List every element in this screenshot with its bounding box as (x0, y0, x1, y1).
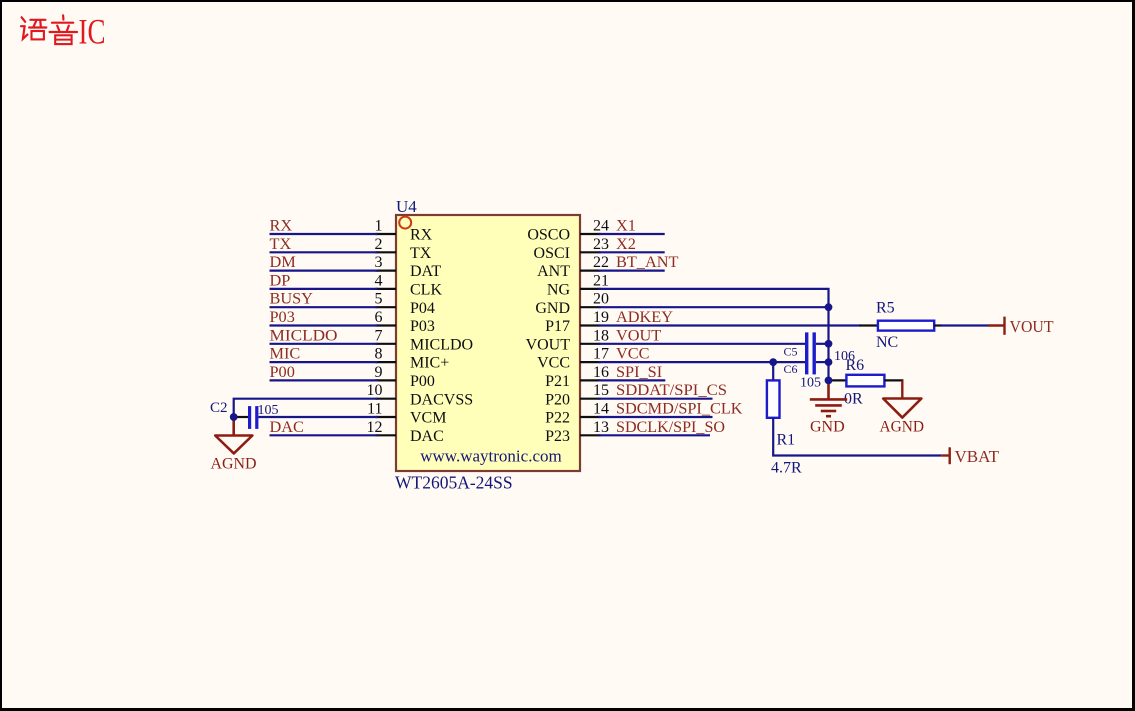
pin 2 stub (376, 251, 396, 253)
svg-text:C2: C2 (210, 400, 228, 416)
svg-text:ADKEY: ADKEY (616, 307, 673, 326)
pin 12 stub (376, 434, 396, 436)
svg-text:CLK: CLK (410, 282, 442, 299)
svg-text:VOUT: VOUT (1010, 317, 1055, 336)
svg-text:P03: P03 (270, 307, 295, 326)
wire pin 20 to vertical bus (599, 306, 829, 308)
svg-text:P23: P23 (545, 428, 570, 445)
wire junction (769, 358, 777, 366)
pin 21 stub (580, 288, 601, 290)
svg-text:P00: P00 (410, 373, 435, 390)
svg-text:AGND: AGND (880, 419, 925, 436)
svg-text:VCM: VCM (410, 410, 446, 427)
svg-text:SDCMD/SPI_CLK: SDCMD/SPI_CLK (616, 399, 743, 418)
svg-text:24: 24 (593, 218, 609, 235)
svg-text:P00: P00 (270, 362, 295, 381)
svg-text:105: 105 (800, 376, 821, 391)
svg-text:www.waytronic.com: www.waytronic.com (420, 447, 561, 466)
wire C5 right plate to bus (816, 343, 829, 345)
svg-text:17: 17 (593, 346, 609, 363)
svg-text:TX: TX (270, 234, 292, 253)
svg-text:R1: R1 (777, 432, 796, 449)
svg-text:C5: C5 (784, 345, 798, 359)
svg-text:X1: X1 (616, 216, 636, 235)
svg-text:20: 20 (593, 291, 609, 308)
wire net DM (270, 270, 378, 272)
pin 24 stub (580, 233, 601, 235)
svg-text:4.7R: 4.7R (771, 460, 802, 477)
pin 4 stub (376, 288, 396, 290)
wire junction (825, 358, 833, 366)
capacitor C5 C6 plates (805, 332, 808, 374)
svg-text:SDDAT/SPI_CS: SDDAT/SPI_CS (616, 380, 727, 399)
svg-text:OSCI: OSCI (534, 245, 570, 262)
svg-text:DACVSS: DACVSS (410, 391, 473, 408)
svg-text:R5: R5 (876, 300, 895, 317)
svg-text:DAC: DAC (270, 417, 304, 436)
svg-text:23: 23 (593, 236, 609, 253)
pin 1 indicator circle (399, 217, 411, 229)
pin 3 stub (376, 270, 396, 272)
svg-text:MICLDO: MICLDO (410, 336, 473, 353)
wire junction (825, 340, 833, 348)
svg-text:5: 5 (375, 291, 383, 308)
svg-text:VCC: VCC (616, 344, 649, 363)
pin 19 stub (580, 324, 601, 326)
svg-text:BUSY: BUSY (270, 289, 314, 308)
svg-text:21: 21 (593, 272, 609, 289)
svg-text:ANT: ANT (537, 263, 570, 280)
svg-text:C6: C6 (784, 362, 798, 376)
pin 15 stub (580, 398, 601, 400)
wire net P00 (270, 379, 378, 381)
pin 18 stub (580, 343, 601, 345)
pin 1 stub (376, 233, 396, 235)
svg-text:10: 10 (367, 382, 383, 399)
wire R6 right lead (884, 379, 903, 381)
svg-text:MIC+: MIC+ (410, 355, 449, 372)
pin 20 stub (580, 306, 601, 308)
wire net X1 (599, 233, 665, 235)
svg-text:SDCLK/SPI_SO: SDCLK/SPI_SO (616, 417, 725, 436)
svg-text:18: 18 (593, 327, 609, 344)
power port VOUT (988, 317, 1005, 335)
wire R5 to VOUT port (934, 324, 941, 326)
svg-text:TX: TX (410, 245, 432, 262)
svg-text:SPI_SI: SPI_SI (616, 362, 662, 381)
svg-text:13: 13 (593, 419, 609, 436)
wire C2 left lead (234, 416, 248, 418)
wire junction (825, 303, 833, 311)
wire net MICLDO (270, 343, 378, 345)
pin 6 stub (376, 324, 396, 326)
svg-text:RX: RX (270, 216, 293, 235)
svg-text:WT2605A-24SS: WT2605A-24SS (395, 473, 513, 493)
svg-text:OSCO: OSCO (527, 227, 570, 244)
svg-text:GND: GND (810, 419, 845, 436)
wire net SDCMD/SPI_CLK (599, 416, 713, 418)
wire net DP (270, 288, 378, 290)
svg-text:P17: P17 (545, 318, 570, 335)
AGND symbol right (883, 399, 921, 418)
svg-text:P04: P04 (410, 300, 435, 317)
svg-text:X2: X2 (616, 234, 636, 253)
pin 17 stub (580, 361, 601, 363)
svg-text:NG: NG (547, 282, 571, 299)
wire net ADKEY to R5 (599, 324, 861, 326)
svg-text:VOUT: VOUT (526, 336, 571, 353)
wire C2 right plate to pin 11 (258, 416, 377, 418)
wire net VCC pin17 (599, 361, 806, 363)
svg-text:P22: P22 (545, 410, 570, 427)
IC U4 body (396, 215, 580, 471)
title 语音IC (21, 15, 77, 44)
capacitor C2 (248, 406, 251, 429)
resistor R6 (846, 375, 884, 387)
pin 7 stub (376, 343, 396, 345)
resistor R5 (878, 321, 934, 331)
svg-text:DP: DP (270, 270, 291, 289)
svg-text:RX: RX (410, 227, 433, 244)
wire junction (825, 377, 833, 385)
wire net TX (270, 251, 378, 253)
svg-text:8: 8 (375, 346, 383, 363)
svg-text:9: 9 (375, 364, 383, 381)
svg-text:MICLDO: MICLDO (270, 325, 338, 344)
svg-text:19: 19 (593, 309, 609, 326)
svg-text:DAC: DAC (410, 428, 444, 445)
svg-text:14: 14 (593, 401, 609, 418)
resistor R1 (767, 380, 780, 417)
pin 5 stub (376, 306, 396, 308)
wire R6 left lead (829, 379, 847, 381)
svg-text:11: 11 (367, 401, 382, 418)
svg-text:P03: P03 (410, 318, 435, 335)
svg-text:R6: R6 (846, 357, 865, 374)
pin 23 stub (580, 251, 601, 253)
wire net SPI_SI (599, 379, 666, 381)
pin 9 stub (376, 379, 396, 381)
wire C6 right plate to bus (816, 361, 829, 363)
svg-text:NC: NC (876, 334, 898, 351)
wire net SDDAT/SPI_CS (599, 398, 713, 400)
vertical bus wire (827, 307, 829, 380)
pin 14 stub (580, 416, 601, 418)
svg-text:7: 7 (375, 327, 383, 344)
svg-text:DAT: DAT (410, 263, 441, 280)
wire pin 21 to vertical bus (599, 289, 829, 307)
wire net DAC (270, 434, 378, 436)
pin 16 stub (580, 379, 601, 381)
svg-text:1: 1 (375, 218, 383, 235)
svg-text:P20: P20 (545, 391, 570, 408)
wire net BT_ANT (599, 270, 665, 272)
svg-text:3: 3 (375, 254, 383, 271)
svg-text:6: 6 (375, 309, 383, 326)
wire pin 10 to C2 node (234, 399, 378, 417)
AGND symbol left (215, 417, 252, 453)
pin 22 stub (580, 270, 601, 272)
wire net SDCLK/SPI_SO (599, 434, 711, 436)
power port VBAT (941, 447, 950, 464)
wire net BUSY (270, 306, 378, 308)
svg-text:AGND: AGND (211, 456, 257, 473)
pin 10 stub (376, 398, 396, 400)
svg-text:DM: DM (270, 252, 296, 271)
wire R1 top lead (772, 362, 774, 381)
wire net VOUT pin18 to C5 (599, 343, 806, 345)
svg-text:12: 12 (367, 419, 383, 436)
svg-text:16: 16 (593, 364, 609, 381)
svg-text:VCC: VCC (537, 355, 570, 372)
svg-text:GND: GND (535, 300, 570, 317)
svg-text:VOUT: VOUT (616, 325, 661, 344)
wire net X2 (599, 251, 665, 253)
wire R1 bottom to VBAT (773, 418, 941, 456)
wire net P03 (270, 324, 378, 326)
svg-text:U4: U4 (396, 197, 417, 216)
svg-text:15: 15 (593, 382, 609, 399)
svg-text:P21: P21 (545, 373, 570, 390)
svg-text:VBAT: VBAT (955, 447, 1000, 466)
svg-text:MIC: MIC (270, 344, 301, 363)
svg-text:2: 2 (375, 236, 383, 253)
GND symbol (810, 380, 847, 416)
svg-text:IC: IC (79, 12, 106, 52)
svg-text:4: 4 (375, 272, 383, 289)
wire net MIC (270, 361, 378, 363)
pin 13 stub (580, 434, 601, 436)
svg-text:22: 22 (593, 254, 609, 271)
pin 11 stub (376, 416, 396, 418)
wire junction (230, 413, 238, 421)
pin 8 stub (376, 361, 396, 363)
wire net RX (270, 233, 378, 235)
svg-text:105: 105 (258, 403, 279, 418)
svg-text:BT_ANT: BT_ANT (616, 252, 678, 271)
